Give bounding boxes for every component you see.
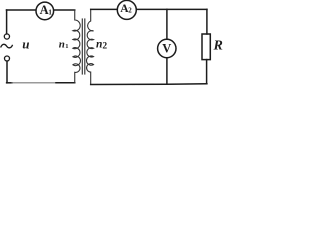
svg-text:u: u [22, 36, 29, 51]
resistor R body [202, 34, 210, 60]
svg-text:R: R [213, 38, 223, 53]
inductor n1 primary winding [73, 10, 81, 83]
svg-text:2: 2 [102, 41, 107, 51]
wire: right loop right vertical upper [206, 9, 208, 34]
svg-text:V: V [162, 41, 171, 55]
wire: right loop right vertical lower [206, 60, 208, 84]
svg-text:1: 1 [65, 43, 68, 50]
ammeter A1 body [36, 2, 54, 20]
wire: left loop left vertical lower [6, 61, 8, 83]
transformer core [81, 19, 83, 74]
wire: right loop bottom [91, 83, 207, 86]
wire: left loop left vertical upper [6, 10, 8, 34]
wire: left loop bottom (faded scan segment) [7, 82, 12, 84]
wire: voltmeter branch upper [166, 9, 168, 39]
inductor n2 secondary winding [86, 9, 93, 84]
svg-text:2: 2 [128, 6, 132, 14]
svg-text:n: n [59, 39, 65, 51]
wire: voltmeter branch lower [166, 58, 168, 85]
voltmeter V body [158, 39, 176, 57]
ammeter A2 body [117, 0, 136, 19]
wire: right loop top [91, 8, 207, 10]
terminal upper [4, 34, 9, 39]
terminal lower [5, 56, 10, 61]
svg-text:1: 1 [48, 7, 52, 16]
AC source symbol ~ [1, 44, 12, 48]
wire: left loop top [7, 9, 75, 11]
